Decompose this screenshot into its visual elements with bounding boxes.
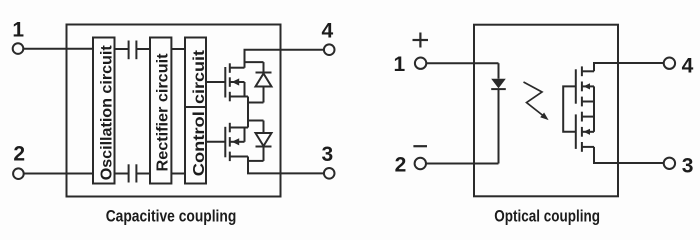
wire Q4 drain to node 3 [594, 147, 664, 163]
transistor Q2 (lower MOSFET) [225, 123, 248, 161]
LED D3 [491, 63, 506, 163]
wire Q2 drain to bottom rail and node 3 [248, 157, 324, 174]
wire capacitor C2 to rectifier block [136, 173, 150, 175]
svg-text:1: 1 [393, 53, 405, 76]
wire oscillation to capacitor C2 [115, 173, 129, 175]
wire mid node to diode D1 anode [248, 102, 264, 104]
photo-MOSFET Q3/Q4 gate bracket [563, 86, 576, 131]
svg-text:Control: Control [191, 111, 208, 176]
svg-text:Capacitive coupling: Capacitive coupling [106, 207, 237, 226]
wire control to Q2 gate [206, 141, 225, 143]
plus sign [413, 39, 429, 41]
relay outline box (left) [67, 25, 281, 197]
rectifier circuit block [150, 38, 171, 184]
wire node 1 to LED anode [426, 62, 498, 64]
transistor Q1 (upper MOSFET) [225, 63, 248, 101]
relay outline box (right) [474, 25, 618, 197]
wire rectifier to control (bottom) [171, 173, 185, 175]
wire capacitor C1 to rectifier block [136, 48, 150, 50]
oscillation circuit block [93, 38, 115, 184]
wire Q3/Q4 source tie [593, 86, 595, 131]
svg-text:1: 1 [12, 19, 24, 42]
wire control to Q1 gate [206, 81, 225, 83]
node 4 terminal circle (right) [664, 58, 675, 69]
transistor Q3 (upper photo MOSFET) [576, 66, 594, 106]
wire Q1 source down to mid node [247, 97, 249, 128]
capacitor C1 (top) [128, 41, 130, 60]
capacitor C2 (bottom) [128, 164, 130, 182]
svg-text:4: 4 [321, 20, 333, 43]
transistor Q4 (lower photo MOSFET) [576, 112, 594, 152]
node 3 terminal circle [324, 168, 335, 179]
node 2 terminal circle [13, 168, 24, 179]
node 1 terminal circle [13, 43, 24, 54]
node 2 terminal circle (right) [415, 158, 426, 169]
wire rectifier to control (top) [171, 48, 185, 50]
wire node 2 to LED cathode [426, 163, 499, 165]
diode D1 (upper body diode) [256, 62, 272, 102]
wire from node 2 to oscillation block [24, 173, 93, 175]
diode D2 (lower body diode) [256, 121, 272, 161]
svg-text:Optical coupling: Optical coupling [494, 207, 600, 226]
wire diode D2 anode jog to Q2 drain [248, 160, 264, 162]
wire mid node to diode D2 cathode-side branch [248, 120, 264, 122]
svg-text:Oscillation circuit: Oscillation circuit [99, 45, 116, 181]
svg-text:Rectifier circuit: Rectifier circuit [155, 53, 172, 172]
node 4 terminal circle [324, 44, 335, 55]
minus sign [413, 145, 427, 147]
svg-text:3: 3 [321, 143, 333, 166]
wire Q1 drain to top rail [245, 50, 324, 68]
svg-text:4: 4 [682, 55, 694, 78]
node 3 terminal circle (right) [664, 158, 675, 169]
control block divider line [185, 106, 206, 108]
svg-text:2: 2 [13, 142, 25, 165]
wire from node 1 to oscillation block [23, 48, 93, 50]
light arrow (optical path) [524, 82, 549, 120]
control circuit block [185, 38, 206, 184]
svg-text:2: 2 [395, 153, 407, 176]
svg-text:3: 3 [682, 154, 694, 177]
node 1 terminal circle (right) [415, 58, 426, 69]
wire Q1 drain jog to diode D1 cathode [245, 61, 264, 63]
wire Q3 drain to node 4 [594, 63, 664, 71]
svg-text:circuit: circuit [191, 49, 208, 104]
wire oscillation to capacitor C1 [115, 48, 129, 50]
